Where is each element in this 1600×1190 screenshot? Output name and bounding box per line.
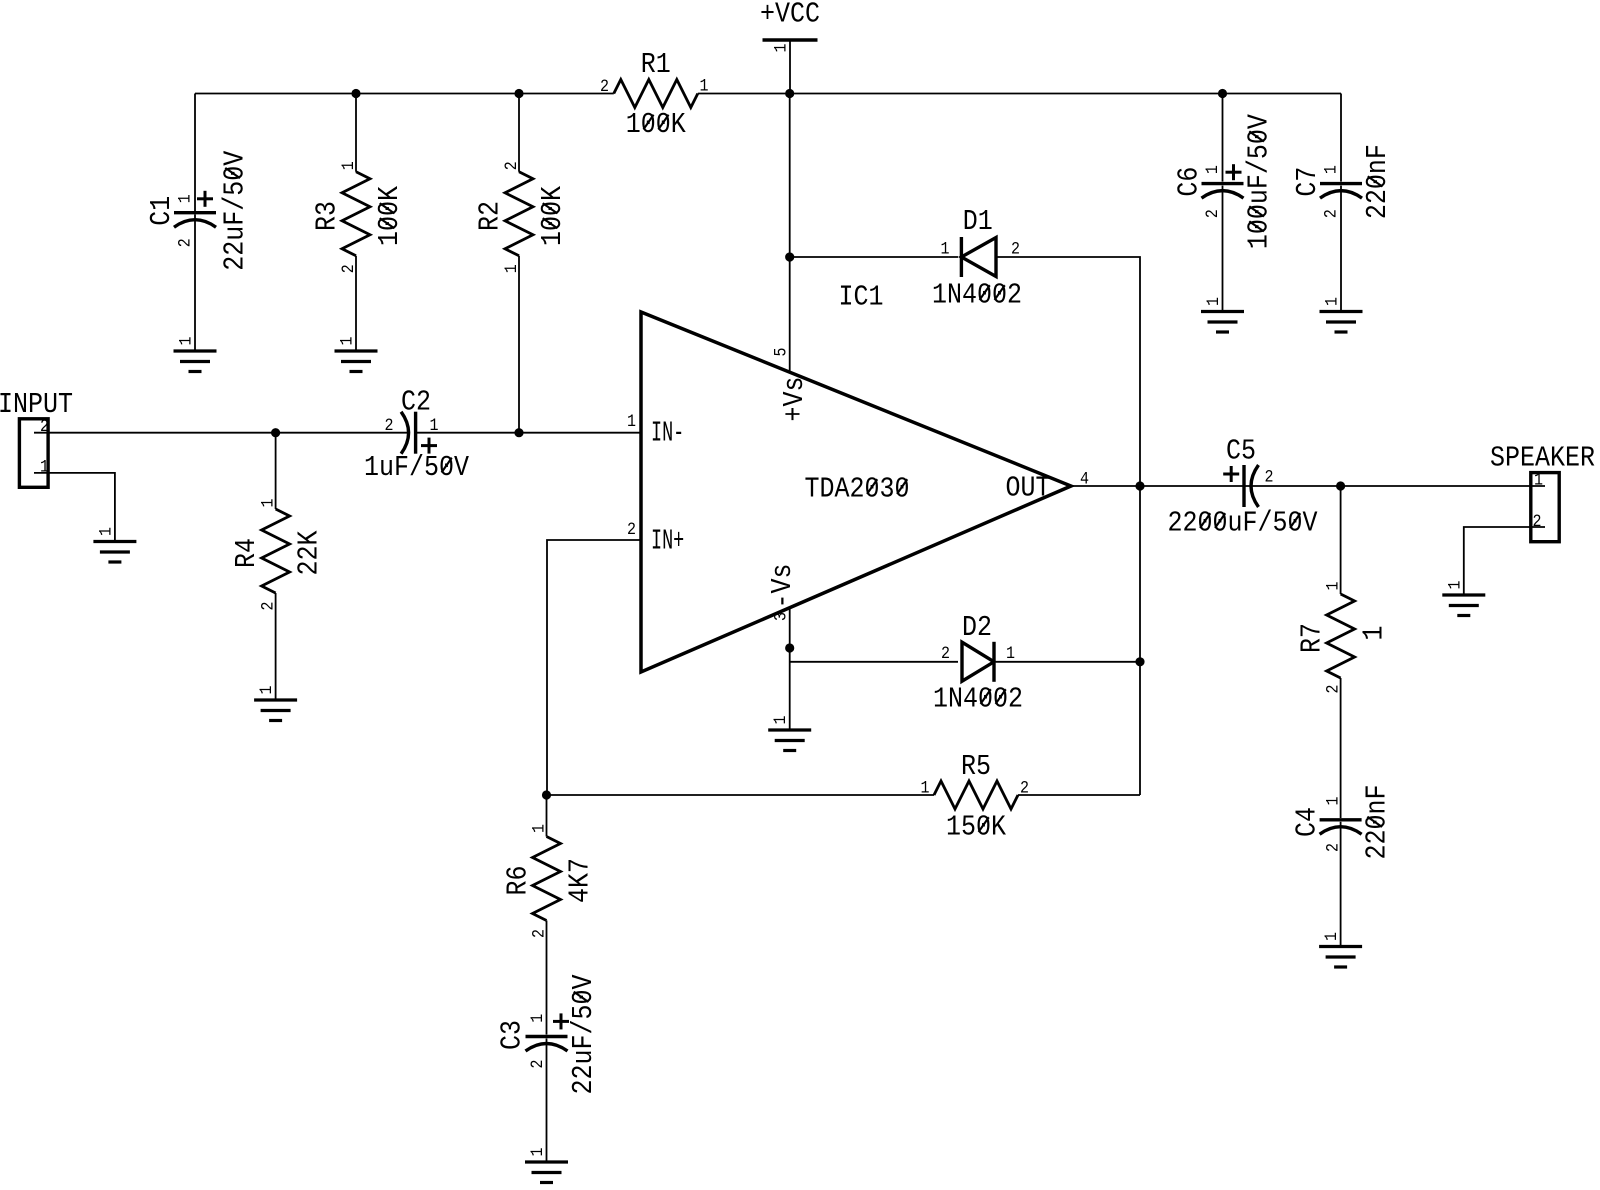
pin 1 label of IC1: [627, 412, 636, 431]
label C7: [1293, 167, 1325, 197]
svg-text:IN+: IN+: [651, 526, 684, 558]
label R2: [475, 201, 507, 231]
svg-text:2: 2: [627, 520, 636, 539]
pin 1 label of ground: [1204, 297, 1223, 306]
wire: [1340, 186, 1342, 311]
wire: [194, 94, 196, 212]
svg-text:22uF/50V: 22uF/50V: [220, 150, 252, 271]
pin 2 label of R4: [259, 601, 278, 610]
pin 1 label of INPUT: [40, 458, 49, 477]
svg-text:5: 5: [772, 347, 791, 356]
svg-text:C5: C5: [1226, 436, 1256, 468]
svg-text:3: 3: [772, 612, 791, 621]
svg-text:1: 1: [700, 77, 709, 96]
svg-text:1: 1: [338, 336, 357, 345]
label R1: [641, 50, 671, 82]
pin 1 label of C1: [176, 194, 195, 203]
value 22K of R4: [294, 530, 326, 576]
svg-text:2: 2: [1020, 779, 1029, 798]
pin 2 label of C3: [528, 1059, 547, 1068]
svg-text:1: 1: [530, 824, 549, 833]
svg-text:2: 2: [941, 644, 950, 663]
svg-text:22K: 22K: [294, 530, 326, 576]
label R6: [503, 865, 535, 895]
capacitor C2: [401, 412, 416, 454]
wire: [546, 795, 548, 837]
label R4: [232, 538, 264, 568]
ground: [1319, 947, 1362, 968]
svg-text:R7: R7: [1297, 623, 1329, 653]
svg-text:1: 1: [259, 498, 278, 507]
svg-text:C7: C7: [1293, 167, 1325, 197]
plus sign of C3: [553, 1013, 569, 1029]
ground: [525, 1162, 568, 1183]
wire: [34, 432, 408, 434]
svg-text:TDA2030: TDA2030: [805, 474, 910, 506]
pin 2 label of D1: [1011, 240, 1020, 259]
wire: [789, 608, 791, 729]
value 22uF/50V of C3: [569, 974, 601, 1095]
svg-text:1: 1: [1203, 165, 1222, 174]
wire: [194, 215, 196, 351]
wire: [34, 473, 115, 541]
pin 2 label of C1: [176, 238, 195, 247]
label C5: [1226, 436, 1256, 468]
svg-text:1: 1: [257, 685, 276, 694]
svg-text:D1: D1: [963, 207, 993, 239]
svg-text:1: 1: [502, 264, 521, 273]
wire: [355, 94, 357, 172]
svg-text:2: 2: [1533, 512, 1542, 531]
svg-text:OUT: OUT: [1006, 473, 1051, 505]
capacitor C1: [174, 213, 216, 228]
wire: [1340, 94, 1342, 182]
junction: [785, 89, 794, 98]
svg-text:R2: R2: [475, 201, 507, 231]
svg-text:150K: 150K: [946, 812, 1007, 844]
wire: [1464, 527, 1545, 594]
ground: [254, 700, 297, 721]
wire: [1252, 485, 1545, 487]
power +VCC: [763, 38, 818, 42]
svg-text:1: 1: [1324, 796, 1343, 805]
junction: [514, 428, 523, 437]
wire: [1018, 794, 1140, 796]
label C6: [1174, 167, 1206, 197]
pin 2 label of INPUT: [40, 417, 49, 436]
junction: [542, 790, 551, 799]
ground: [1320, 312, 1363, 333]
pin 5 label of IC1: [772, 347, 791, 356]
wire: [518, 256, 520, 433]
junction: [1135, 657, 1144, 666]
svg-text:2: 2: [385, 416, 394, 435]
pin 1 label of R5: [921, 779, 930, 798]
value 220nF of C7: [1363, 144, 1395, 219]
wire: [546, 1039, 548, 1162]
pin 1 label of ground: [97, 527, 116, 536]
svg-text:1: 1: [176, 194, 195, 203]
pin 3 label of IC1: [772, 612, 791, 621]
svg-text:1: 1: [40, 458, 49, 477]
pin 2 label of R5: [1020, 779, 1029, 798]
junction: [351, 89, 360, 98]
resistor R1: [614, 80, 698, 108]
label C4: [1292, 807, 1324, 837]
svg-text:D2: D2: [962, 613, 992, 645]
svg-text:-Vs: -Vs: [768, 563, 800, 608]
pin 2 label of C7: [1322, 209, 1341, 218]
capacitor C4: [1320, 820, 1362, 834]
svg-text:2: 2: [1265, 468, 1274, 487]
junction: [1336, 481, 1345, 490]
svg-text:2: 2: [1324, 684, 1343, 693]
svg-text:22uF/50V: 22uF/50V: [569, 974, 601, 1095]
junction: [514, 89, 523, 98]
label D2: [962, 613, 992, 645]
wire: [546, 921, 548, 1035]
svg-text:100K: 100K: [538, 185, 570, 246]
pin 2 label of C5: [1265, 468, 1274, 487]
svg-text:R1: R1: [641, 50, 671, 82]
junction: [785, 252, 794, 261]
svg-text:1: 1: [1359, 625, 1391, 640]
svg-text:+VCC: +VCC: [760, 0, 820, 31]
svg-text:1: 1: [528, 1147, 547, 1156]
pin 2 label of R1: [600, 77, 609, 96]
resistor R6: [533, 837, 561, 921]
pin 1 label of R2: [502, 264, 521, 273]
resistor R2: [505, 172, 533, 256]
label IC1: [839, 282, 884, 314]
wire: [1340, 678, 1342, 818]
svg-text:2200uF/50V: 2200uF/50V: [1168, 508, 1319, 540]
svg-text:1: 1: [528, 1014, 547, 1023]
wire: [790, 256, 958, 258]
label SPEAKER: [1490, 443, 1595, 475]
svg-text:4: 4: [1080, 470, 1089, 489]
pin name IN+ of IC1: [651, 526, 684, 558]
svg-text:2: 2: [40, 417, 49, 436]
wire: [1222, 94, 1224, 182]
svg-text:1: 1: [339, 161, 358, 170]
svg-text:100K: 100K: [626, 110, 687, 142]
svg-text:1: 1: [1445, 580, 1464, 589]
value 1N4002 of D1: [932, 280, 1022, 312]
pin 2 label of R6: [530, 929, 549, 938]
pin 2 label of D2: [941, 644, 950, 663]
wire: [518, 94, 520, 172]
pin 1 label of R4: [259, 498, 278, 507]
svg-text:2: 2: [339, 264, 358, 273]
svg-text:2: 2: [1324, 843, 1343, 852]
svg-text:2: 2: [528, 1059, 547, 1068]
pin 2 label of R2: [502, 161, 521, 170]
value 100K of R1: [626, 110, 687, 142]
wire: [996, 257, 1140, 795]
svg-text:1: 1: [1006, 644, 1015, 663]
svg-text:2: 2: [600, 77, 609, 96]
pin name OUT of IC1: [1006, 473, 1051, 505]
label R7: [1297, 623, 1329, 653]
svg-text:220nF: 220nF: [1363, 144, 1395, 219]
label +VCC: [760, 0, 820, 31]
value 100K of R3: [375, 185, 407, 246]
plus sign of C2: [421, 438, 437, 454]
capacitor C5: [1244, 465, 1259, 507]
diode D2 1N4002: [962, 642, 994, 682]
wire: [547, 540, 641, 795]
svg-text:1: 1: [771, 715, 790, 724]
wire: [698, 93, 1341, 95]
wire: [1340, 486, 1342, 594]
svg-text:1: 1: [1322, 932, 1341, 941]
resistor R7: [1327, 594, 1355, 678]
pin 1 label of ground: [257, 685, 276, 694]
svg-text:2: 2: [502, 161, 521, 170]
wire: [275, 433, 277, 509]
svg-text:1: 1: [921, 779, 930, 798]
pin 1 label of R3: [339, 161, 358, 170]
pin 1 label of ground: [1323, 297, 1342, 306]
pin 2 label of R7: [1324, 684, 1343, 693]
svg-text:C1: C1: [147, 196, 179, 226]
pin 4 label of IC1: [1080, 470, 1089, 489]
pin 1 label of ground: [1445, 580, 1464, 589]
pin 1 label of R6: [530, 824, 549, 833]
pin 1 label of SPEAKER: [1534, 471, 1543, 490]
pin name IN- of IC1: [651, 418, 684, 450]
svg-text:1: 1: [1534, 471, 1543, 490]
wire: [996, 661, 1140, 663]
wire: [355, 256, 357, 350]
label R3: [312, 201, 344, 231]
svg-text:1N4002: 1N4002: [933, 684, 1023, 716]
value 2200uF/50V of C5: [1168, 508, 1319, 540]
value 1 of R7: [1359, 625, 1391, 640]
svg-text:1: 1: [177, 336, 196, 345]
value 1uF/50V of C2: [364, 453, 470, 485]
wire: [1071, 485, 1252, 487]
pin 1 label of C7: [1322, 165, 1341, 174]
pin 2 label of C4: [1324, 843, 1343, 852]
ground: [1442, 595, 1485, 616]
svg-text:2: 2: [1322, 209, 1341, 218]
capacitor C3: [526, 1037, 568, 1052]
svg-text:1: 1: [430, 416, 439, 435]
pin name -Vs of IC1: [768, 563, 800, 608]
pin 1 label of ground: [528, 1147, 547, 1156]
junction: [271, 428, 280, 437]
svg-text:1: 1: [1324, 581, 1343, 590]
value 100uF/50V of C6: [1244, 113, 1276, 249]
svg-text:1: 1: [627, 412, 636, 431]
wire: [547, 794, 935, 796]
pin 1 label of C3: [528, 1014, 547, 1023]
pin 1 label of C2: [430, 416, 439, 435]
ground: [768, 730, 811, 751]
svg-text:4K7: 4K7: [565, 858, 597, 903]
svg-text:R5: R5: [961, 752, 991, 784]
wire: [275, 593, 277, 699]
svg-text:C2: C2: [401, 387, 431, 419]
svg-text:1uF/50V: 1uF/50V: [364, 453, 470, 485]
resistor R3: [342, 172, 370, 256]
pin name +Vs of IC1: [780, 376, 812, 421]
resistor R4: [262, 509, 290, 593]
pin 2 label of C6: [1203, 209, 1222, 218]
label INPUT: [0, 390, 73, 422]
pin 2 label of R3: [339, 264, 358, 273]
wire: [195, 93, 614, 95]
pin 2 label of IC1: [627, 520, 636, 539]
connector J2 SPEAKER: [1531, 473, 1559, 542]
pin 1 label of D2: [1006, 644, 1015, 663]
pin 1 label of ground: [338, 336, 357, 345]
pin 1 label of R7: [1324, 581, 1343, 590]
pin 2 label of C2: [385, 416, 394, 435]
pin 1 label of R1: [700, 77, 709, 96]
svg-text:1: 1: [1204, 297, 1223, 306]
value 220nF of C4: [1362, 784, 1394, 859]
pin 1 label of ground: [177, 336, 196, 345]
pin 1 label of ground: [771, 715, 790, 724]
svg-text:1: 1: [97, 527, 116, 536]
value 4K7 of R6: [565, 858, 597, 903]
junction: [1135, 481, 1144, 490]
label R5: [961, 752, 991, 784]
svg-text:1: 1: [941, 240, 950, 259]
wire: [1222, 186, 1224, 311]
junction: [1218, 89, 1227, 98]
value 150K of R5: [946, 812, 1007, 844]
wire: [789, 94, 791, 373]
pin 1 label of C6: [1203, 165, 1222, 174]
label C1: [147, 196, 179, 226]
svg-text:2: 2: [176, 238, 195, 247]
svg-text:220nF: 220nF: [1362, 784, 1394, 859]
svg-text:1: 1: [1322, 165, 1341, 174]
svg-text:1: 1: [1323, 297, 1342, 306]
svg-text:2: 2: [259, 601, 278, 610]
svg-text:INPUT: INPUT: [0, 390, 73, 422]
wire: [790, 661, 958, 663]
pin 2 label of SPEAKER: [1533, 512, 1542, 531]
svg-text:1: 1: [772, 43, 791, 52]
value 22uF/50V of C1: [220, 150, 252, 271]
svg-text:2: 2: [530, 929, 549, 938]
connector J1 INPUT: [19, 419, 48, 488]
label C3: [497, 1020, 529, 1050]
pin 1 label of +VCC: [772, 43, 791, 52]
plus sign of C1: [197, 191, 213, 207]
svg-text:1N4002: 1N4002: [932, 280, 1022, 312]
svg-text:2: 2: [1203, 209, 1222, 218]
pin 1 label of D1: [941, 240, 950, 259]
label C2: [401, 387, 431, 419]
svg-text:C4: C4: [1292, 807, 1324, 837]
svg-text:+Vs: +Vs: [780, 376, 812, 421]
value 1N4002 of D2: [933, 684, 1023, 716]
label TDA2030: [805, 474, 910, 506]
svg-text:R3: R3: [312, 201, 344, 231]
ground: [335, 351, 378, 372]
wire: [789, 40, 791, 94]
capacitor C6: [1202, 184, 1244, 199]
ground: [1201, 312, 1244, 333]
diode D1 1N4002: [961, 237, 996, 277]
value 100K of R2: [538, 185, 570, 246]
plus sign of C6: [1226, 164, 1242, 180]
wire: [416, 432, 641, 434]
label D1: [963, 207, 993, 239]
svg-text:C6: C6: [1174, 167, 1206, 197]
svg-text:IN-: IN-: [651, 418, 684, 450]
plus sign of C5: [1223, 466, 1239, 482]
wire: [1340, 822, 1342, 946]
svg-text:R6: R6: [503, 865, 535, 895]
op-amp IC1 TDA2030: [641, 312, 1071, 672]
ground: [93, 542, 136, 563]
pin 1 label of C4: [1324, 796, 1343, 805]
svg-text:C3: C3: [497, 1020, 529, 1050]
svg-text:2: 2: [1011, 240, 1020, 259]
pin 1 label of ground: [1322, 932, 1341, 941]
capacitor C7: [1320, 184, 1362, 199]
svg-text:IC1: IC1: [839, 282, 884, 314]
ground: [174, 351, 217, 372]
resistor R5: [934, 781, 1018, 809]
svg-text:R4: R4: [232, 538, 264, 568]
junction: [785, 643, 794, 652]
svg-text:100K: 100K: [375, 185, 407, 246]
